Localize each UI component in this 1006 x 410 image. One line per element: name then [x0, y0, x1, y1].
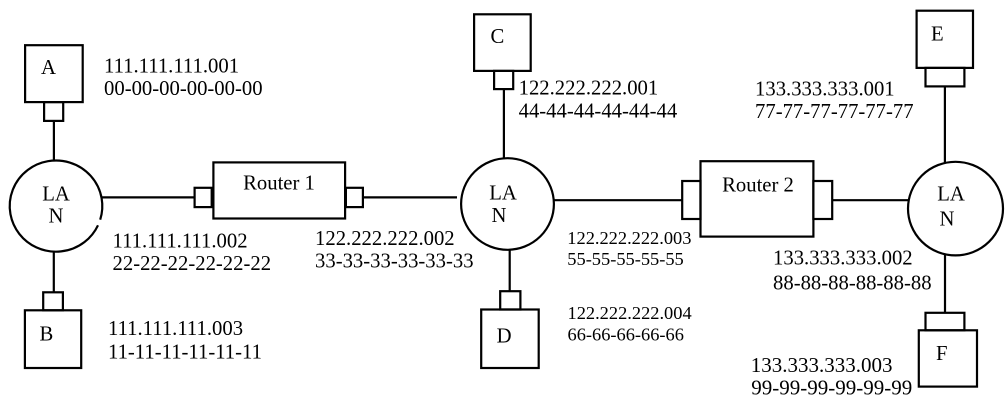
host C box: [474, 14, 531, 71]
wire A to LAN1: [53, 121, 55, 161]
svg-text:122.222.222.001: 122.222.222.001: [519, 78, 659, 100]
svg-text:44-44-44-44-44-44: 44-44-44-44-44-44: [519, 101, 678, 123]
svg-text:B: B: [40, 324, 54, 346]
host A box: [25, 45, 83, 102]
label B addresses 111.111.111.003 / 11-11-11-11-11-11: [108, 318, 262, 363]
wire Router1 to LAN2: [363, 196, 457, 198]
svg-text:E: E: [931, 23, 944, 45]
svg-text:77-77-77-77-77-77: 77-77-77-77-77-77: [755, 101, 914, 123]
svg-text:22-22-22-22-22-22: 22-22-22-22-22-22: [113, 253, 272, 275]
svg-text:66-66-66-66-66: 66-66-66-66-66: [568, 324, 684, 344]
wire C to LAN2: [503, 89, 505, 159]
wire LAN2 to D: [509, 250, 511, 291]
host B connector: [43, 292, 63, 310]
svg-text:33-33-33-33-33-33: 33-33-33-33-33-33: [315, 250, 474, 272]
host F box: [919, 330, 977, 386]
svg-text:N: N: [492, 205, 507, 227]
Router 2 left port: [682, 181, 700, 219]
svg-text:00-00-00-00-00-00: 00-00-00-00-00-00: [104, 78, 263, 100]
label LAN1 router-side 111.111.111.002 / 22-22-22-22-22-22: [113, 230, 272, 275]
svg-text:99-99-99-99-99-99: 99-99-99-99-99-99: [751, 375, 912, 399]
svg-text:N: N: [940, 208, 955, 230]
svg-text:111.111.111.001: 111.111.111.001: [104, 56, 239, 78]
host E box: [917, 11, 973, 68]
host A connector: [44, 102, 63, 121]
svg-text:111.111.111.003: 111.111.111.003: [108, 318, 243, 340]
svg-text:11-11-11-11-11-11: 11-11-11-11-11-11: [108, 341, 262, 363]
svg-text:133.333.333.002: 133.333.333.002: [773, 248, 913, 270]
host E connector: [926, 68, 965, 87]
wire LAN3 to F: [944, 254, 946, 313]
host B box: [25, 310, 81, 368]
svg-text:Router 1: Router 1: [243, 172, 315, 194]
label LAN2 router2-side 122.222.222.003 / 55-55-55-55-55: [567, 228, 691, 269]
Router 1 left port: [195, 188, 212, 207]
wire LAN2 to Router2: [554, 199, 683, 201]
wire LAN1 to Router1: [102, 196, 195, 198]
LAN 3 circle: [908, 162, 1003, 256]
label F addresses 133.333.333.003 / 99-99-99-99-99-99: [751, 353, 912, 399]
label LAN3 router2-side 133.333.333.002 / 88-88-88-88-88-88: [773, 248, 932, 295]
svg-text:Router 2: Router 2: [722, 175, 794, 197]
svg-text:D: D: [497, 325, 512, 347]
router R2 box: [701, 161, 814, 236]
label A addresses 111.111.111.001 / 00-00-00-00-00-00: [104, 56, 263, 101]
svg-text:LA: LA: [937, 183, 965, 205]
Router 1 right port: [346, 188, 363, 207]
label Router1 LAN2-side 122.222.222.002 / 33-33-33-33-33-33: [315, 228, 474, 273]
svg-text:122.222.222.002: 122.222.222.002: [315, 228, 455, 250]
svg-text:N: N: [49, 206, 64, 228]
svg-text:55-55-55-55-55: 55-55-55-55-55: [567, 249, 683, 269]
svg-text:C: C: [491, 26, 505, 48]
label C addresses 122.222.222.001 / 44-44-44-44-44-44: [519, 78, 678, 123]
svg-text:122.222.222.003: 122.222.222.003: [567, 228, 691, 248]
svg-text:122.222.222.004: 122.222.222.004: [568, 303, 692, 323]
wire Router2 to LAN3: [832, 199, 909, 201]
svg-text:F: F: [936, 343, 948, 365]
LAN 2 circle: [461, 158, 554, 250]
host D connector: [500, 291, 520, 309]
host F connector: [926, 313, 965, 331]
wire E to LAN3: [944, 86, 946, 162]
svg-text:A: A: [41, 57, 56, 79]
svg-text:111.111.111.002: 111.111.111.002: [113, 230, 248, 252]
svg-text:133.333.333.003: 133.333.333.003: [751, 353, 893, 377]
label D addresses 122.222.222.004 / 66-66-66-66-66: [568, 303, 692, 345]
host D box: [481, 310, 539, 369]
svg-text:88-88-88-88-88-88: 88-88-88-88-88-88: [773, 272, 932, 294]
svg-text:LA: LA: [42, 184, 70, 206]
svg-text:LA: LA: [489, 183, 517, 205]
label E addresses 133.333.333.001 / 77-77-77-77-77-77: [755, 78, 914, 123]
Router 2 right port: [813, 181, 832, 219]
router R1 box: [213, 162, 345, 218]
LAN 1 circle: [10, 160, 103, 251]
svg-text:133.333.333.001: 133.333.333.001: [755, 78, 895, 100]
wire LAN1 to B: [53, 252, 55, 293]
host C connector: [494, 71, 513, 89]
